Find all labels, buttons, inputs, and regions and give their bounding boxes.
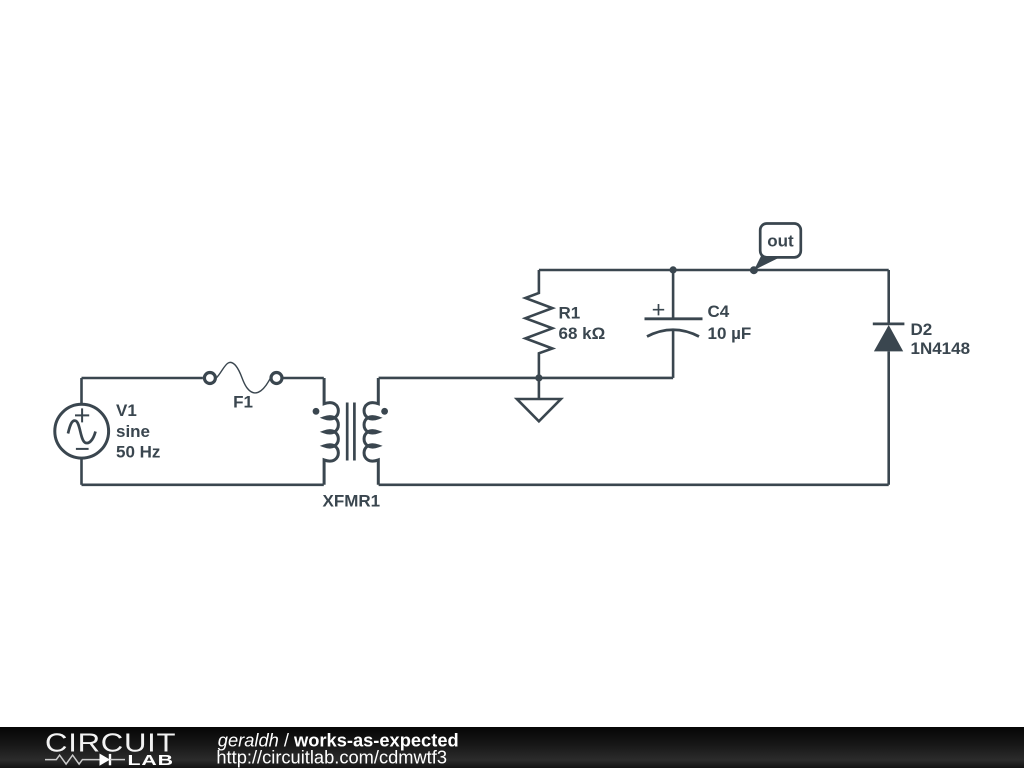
voltage source V1 bbox=[55, 378, 109, 485]
wire F1 to XFMR1 primary bbox=[283, 377, 323, 380]
svg-text:http://circuitlab.com/cdmwtf3: http://circuitlab.com/cdmwtf3 bbox=[216, 746, 447, 767]
svg-text:XFMR1: XFMR1 bbox=[323, 492, 381, 511]
svg-text:68 kΩ: 68 kΩ bbox=[559, 324, 606, 343]
svg-text:out: out bbox=[767, 232, 794, 251]
footer url text bbox=[216, 746, 447, 767]
svg-text:sine: sine bbox=[116, 422, 150, 441]
junction node R1-ground bbox=[535, 374, 542, 381]
wire top rail R1 to D2 bbox=[539, 269, 889, 272]
wire secondary mid rail to C4 bbox=[379, 377, 673, 380]
wire top-left rail V1 to F1 bbox=[82, 377, 203, 380]
junction node C4 top bbox=[670, 266, 677, 273]
svg-text:F1: F1 bbox=[233, 393, 253, 412]
svg-text:1N4148: 1N4148 bbox=[911, 339, 971, 358]
logo LAB text bbox=[128, 751, 174, 768]
wire bottom-left rail bbox=[82, 483, 324, 486]
footer title text bbox=[218, 730, 459, 751]
logo resistor wire bbox=[45, 755, 100, 764]
label V1 value bbox=[116, 401, 160, 462]
logo CIRCUIT text bbox=[45, 729, 176, 758]
ground bbox=[517, 378, 561, 421]
footer bar bbox=[0, 727, 1024, 768]
transformer XFMR1 bbox=[313, 378, 388, 485]
resistor R1 bbox=[525, 270, 552, 378]
fuse F1 bbox=[204, 362, 282, 393]
diode D2 bbox=[873, 270, 905, 485]
label F1 bbox=[233, 393, 253, 412]
label R1 value bbox=[559, 304, 606, 344]
svg-text:10 µF: 10 µF bbox=[708, 324, 752, 343]
label C4 value bbox=[708, 302, 752, 343]
capacitor C4 bbox=[645, 270, 703, 378]
svg-text:R1: R1 bbox=[559, 304, 581, 323]
wire bottom rail secondary to D2 bbox=[379, 483, 889, 486]
svg-text:50 Hz: 50 Hz bbox=[116, 443, 160, 462]
svg-text:LAB: LAB bbox=[128, 751, 174, 768]
svg-text:C4: C4 bbox=[708, 302, 730, 321]
logo diode bbox=[100, 754, 126, 766]
label D2 value bbox=[911, 320, 971, 358]
svg-text:D2: D2 bbox=[911, 320, 933, 339]
label XFMR1 bbox=[323, 492, 381, 511]
svg-text:V1: V1 bbox=[116, 401, 137, 420]
node out flag bbox=[750, 224, 801, 275]
